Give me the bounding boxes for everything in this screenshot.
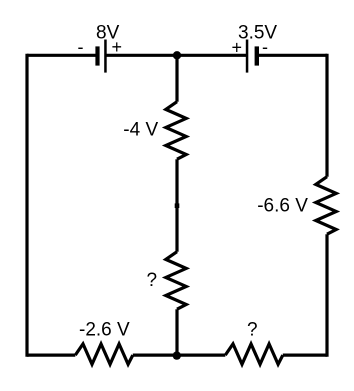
svg-text:+: + <box>112 37 123 57</box>
svg-text:3.5V: 3.5V <box>238 22 277 43</box>
svg-text:-: - <box>78 37 84 57</box>
svg-text:?: ? <box>147 270 158 291</box>
svg-text:-6.6 V: -6.6 V <box>257 195 308 216</box>
svg-text:-2.6 V: -2.6 V <box>79 320 130 341</box>
svg-text:-4 V: -4 V <box>123 120 158 141</box>
svg-text:-: - <box>262 37 268 57</box>
svg-text:+: + <box>232 38 243 58</box>
svg-text:?: ? <box>247 320 258 341</box>
